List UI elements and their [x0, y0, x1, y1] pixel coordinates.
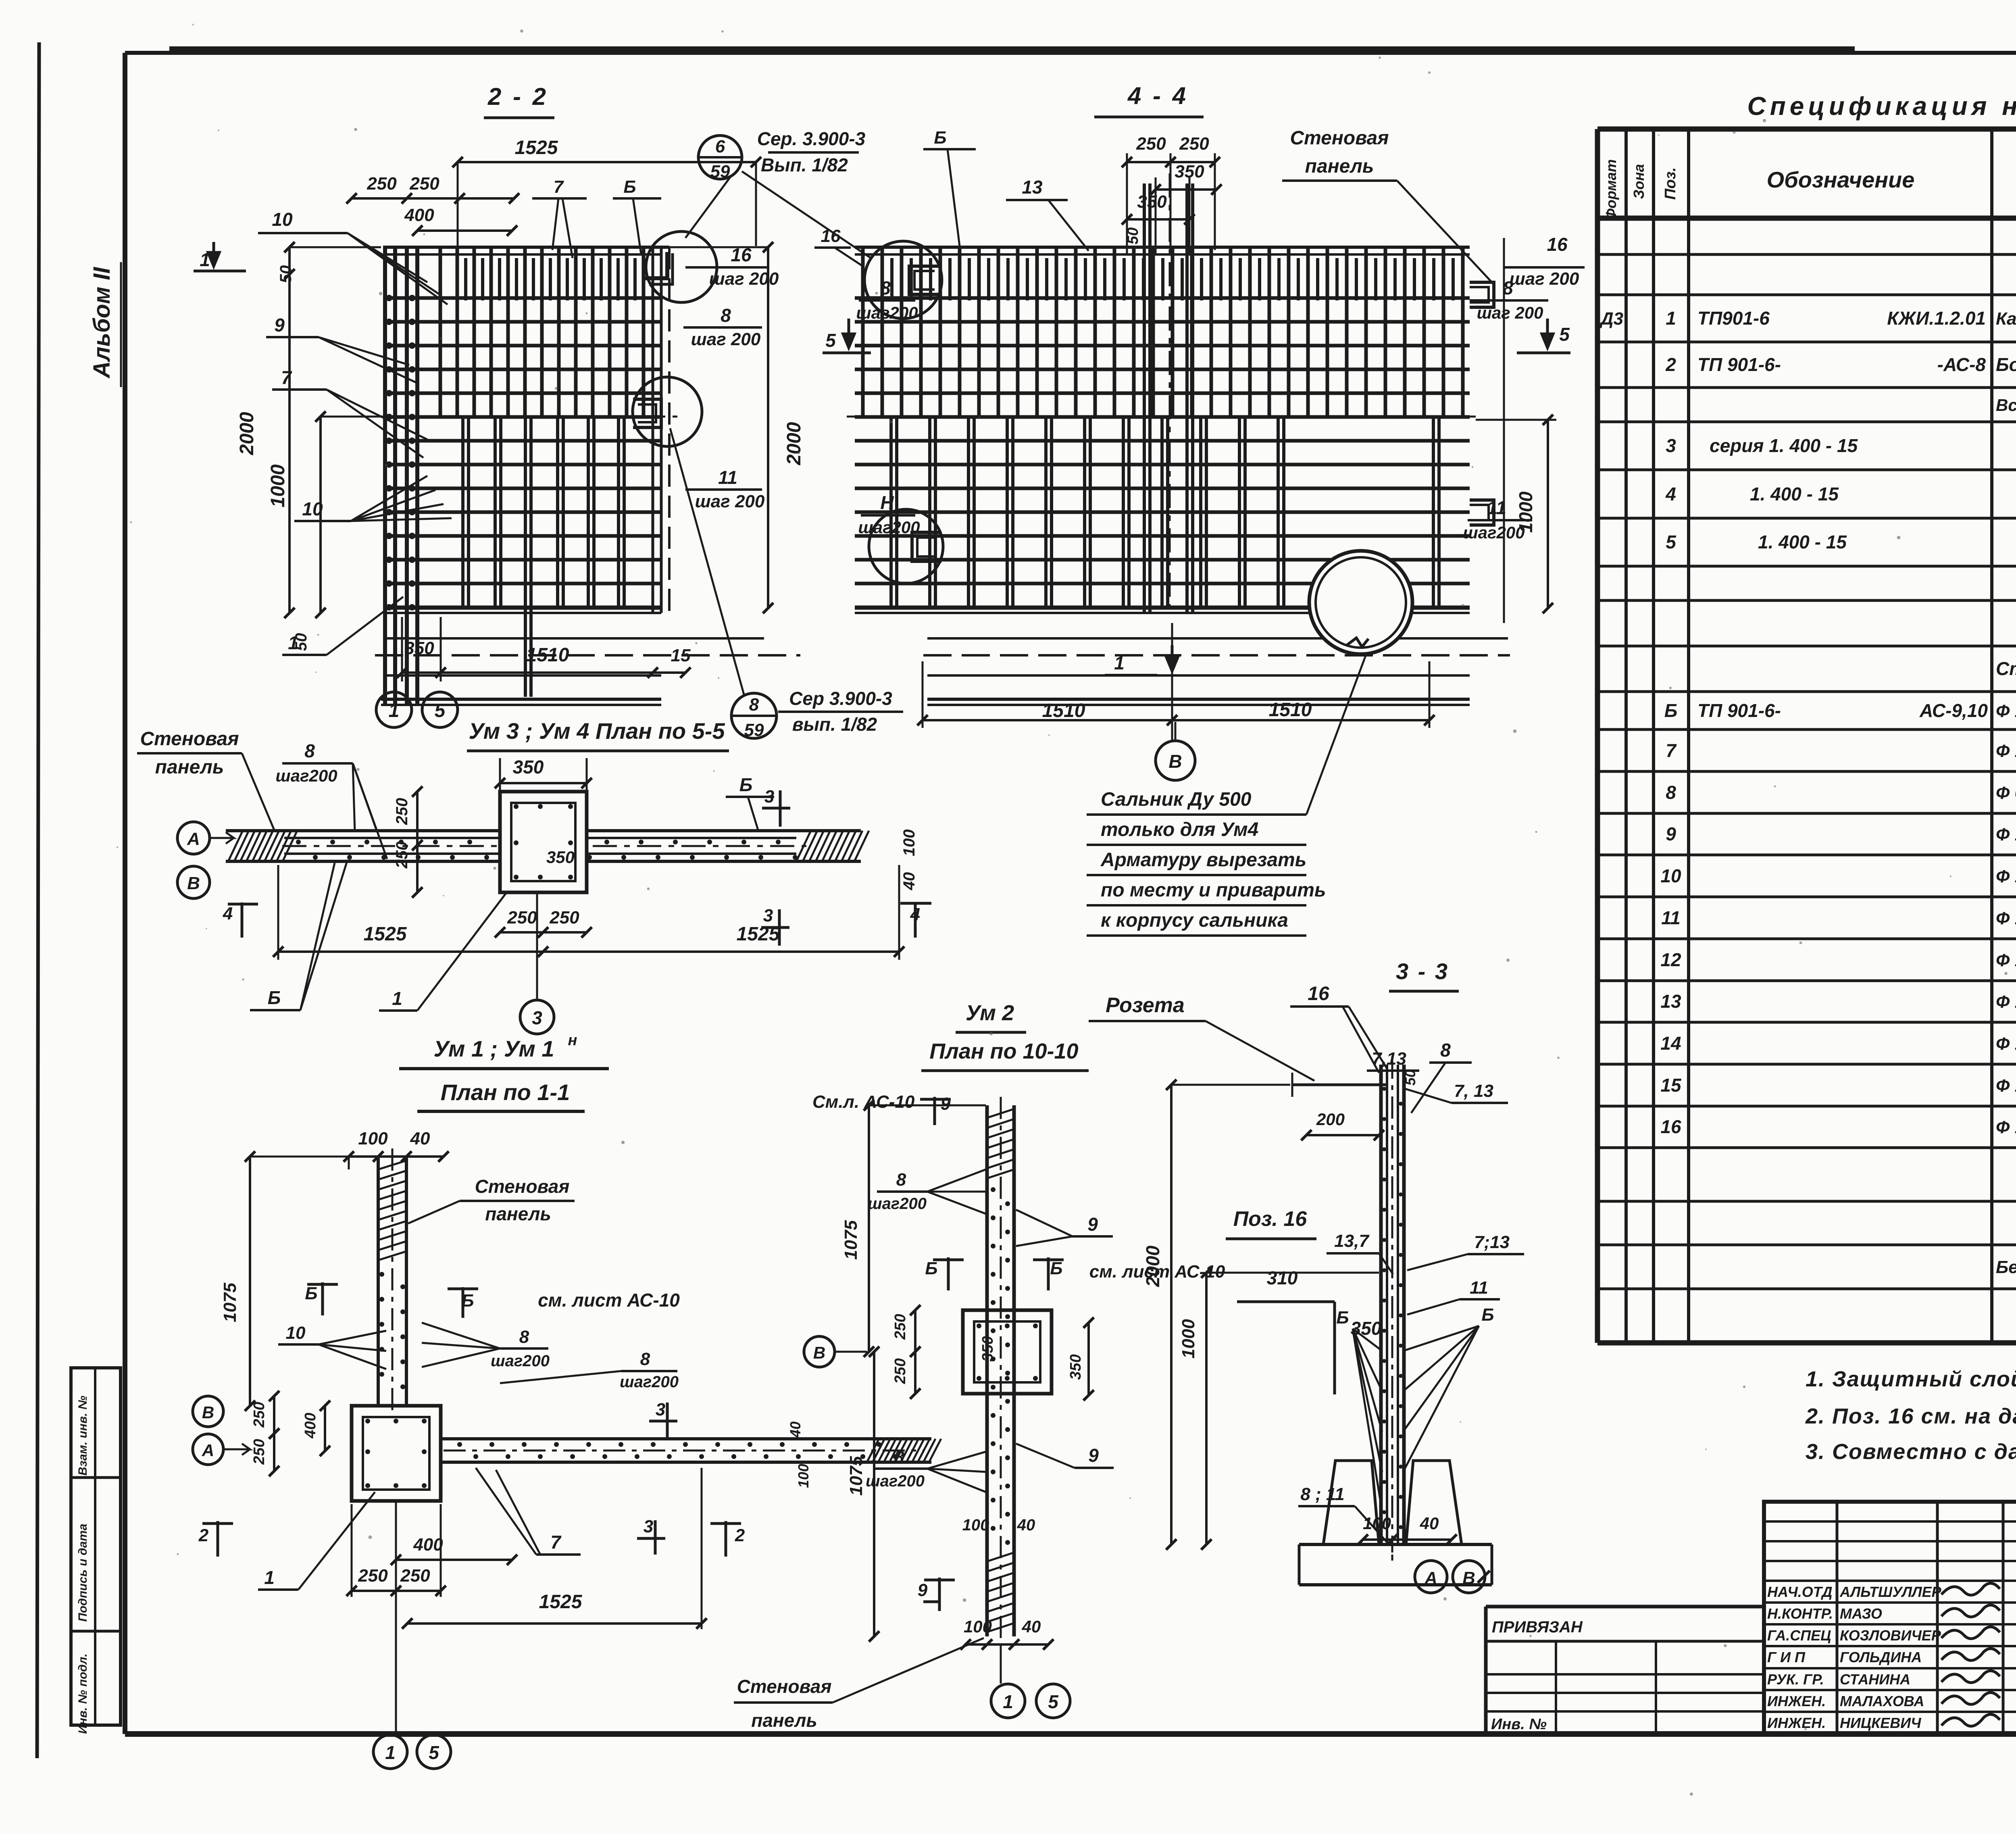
- 2-2 left dims 2000 1000: [288, 247, 291, 613]
- svg-text:Инв. №: Инв. №: [1491, 1716, 1547, 1733]
- svg-text:ИНЖЕН.: ИНЖЕН.: [1767, 1693, 1826, 1709]
- svg-text:40: 40: [787, 1421, 804, 1438]
- 2-2 corner angle detail circles: [646, 231, 717, 302]
- 3-3 top structure: [1292, 1084, 1387, 1086]
- svg-text:8: 8: [519, 1327, 529, 1347]
- plan 1-1 wall: [377, 1157, 380, 1406]
- svg-text:1000: 1000: [267, 464, 289, 507]
- svg-text:МАЛАХОВА: МАЛАХОВА: [1840, 1693, 1924, 1709]
- svg-text:ТП 901-6-: ТП 901-6-: [1697, 354, 1781, 375]
- svg-text:5: 5: [1559, 324, 1570, 345]
- svg-text:Н: Н: [880, 492, 894, 513]
- 2-2 axis line: [375, 416, 677, 418]
- svg-text:шаг200: шаг200: [856, 303, 918, 322]
- svg-text:ТП 901-6-: ТП 901-6-: [1697, 700, 1781, 721]
- svg-text:40: 40: [410, 1129, 430, 1148]
- svg-text:ИНЖЕН.: ИНЖЕН.: [1767, 1715, 1826, 1731]
- svg-text:400: 400: [404, 205, 434, 225]
- svg-text:2 - 2: 2 - 2: [487, 83, 548, 110]
- svg-text:7;13: 7;13: [1474, 1232, 1510, 1252]
- svg-text:шаг200: шаг200: [491, 1352, 550, 1370]
- 2-2 right dim 2000: [767, 247, 769, 608]
- svg-text:200: 200: [1316, 1110, 1345, 1129]
- svg-text:Г И П: Г И П: [1767, 1649, 1806, 1665]
- svg-text:9: 9: [1087, 1214, 1098, 1235]
- svg-text:шаг200: шаг200: [858, 518, 920, 537]
- plan 10-10 circled B: [804, 1336, 835, 1367]
- svg-text:Ф 10 А Ш L = 1000: Ф 10 А Ш L = 1000: [1996, 909, 2016, 928]
- svg-text:59: 59: [710, 162, 730, 181]
- svg-text:11: 11: [1661, 907, 1681, 928]
- svg-text:250: 250: [892, 1314, 909, 1340]
- spec table grid: [1595, 129, 1600, 1343]
- svg-text:40: 40: [900, 872, 918, 891]
- svg-text:Инв. № подл.: Инв. № подл.: [76, 1653, 90, 1734]
- svg-text:5: 5: [429, 1742, 439, 1763]
- 4-4 circled B: [1156, 741, 1195, 780]
- svg-text:панель: панель: [751, 1710, 817, 1731]
- svg-text:Каркас пространственный: Каркас пространственный: [1996, 309, 2016, 329]
- plan 1-1 box: [352, 1406, 441, 1501]
- svg-text:н: н: [568, 1032, 577, 1049]
- svg-text:шаг200: шаг200: [866, 1472, 925, 1490]
- svg-text:3: 3: [764, 787, 774, 807]
- svg-text:5: 5: [1048, 1691, 1059, 1712]
- svg-text:40: 40: [1420, 1514, 1439, 1533]
- svg-text:Д3: Д3: [1599, 309, 1623, 329]
- svg-text:15: 15: [671, 646, 691, 665]
- svg-text:8: 8: [640, 1349, 650, 1369]
- svg-text:Сер. 3.900-3: Сер. 3.900-3: [757, 128, 866, 149]
- svg-text:Поз. 16: Поз. 16: [1233, 1207, 1308, 1231]
- svg-text:Спецификация на монолитные: Спецификация на монолитные участки: [1747, 92, 2016, 121]
- plan 5-5 circled A B: [177, 822, 210, 854]
- title block left part (Привязан): [1484, 1607, 1488, 1734]
- 4-4 bottom band: [855, 606, 1470, 610]
- svg-text:1. Защитный слой бетона - 20: 1. Защитный слой бетона - 20 мм.: [1806, 1367, 2016, 1391]
- svg-text:панель: панель: [155, 757, 224, 778]
- svg-text:10: 10: [1660, 865, 1681, 886]
- svg-text:Ф 10 А Ш L = 1320: Ф 10 А Ш L = 1320: [1996, 867, 2016, 886]
- svg-text:План по 1-1: План по 1-1: [441, 1080, 570, 1105]
- svg-text:1525: 1525: [539, 1591, 583, 1613]
- svg-text:59: 59: [744, 720, 764, 740]
- svg-text:250: 250: [892, 1358, 909, 1384]
- 2-2 callout circle 6/59: [698, 135, 742, 179]
- svg-text:1: 1: [288, 632, 298, 653]
- svg-text:1: 1: [392, 988, 402, 1009]
- svg-text:КОЗЛОВИЧЕР: КОЗЛОВИЧЕР: [1840, 1627, 1941, 1644]
- svg-text:Ф 10 А Ш L = 1760: Ф 10 А Ш L = 1760: [1996, 741, 2016, 761]
- 4-4 salnik circle: [1309, 551, 1412, 654]
- svg-text:1510: 1510: [526, 644, 569, 666]
- svg-text:Б: Б: [268, 987, 281, 1008]
- svg-text:-АС-8: -АС-8: [1937, 354, 1986, 375]
- svg-text:Б: Б: [623, 177, 636, 197]
- svg-text:панель: панель: [485, 1203, 551, 1224]
- svg-text:1. 400 - 15: 1. 400 - 15: [1750, 484, 1839, 504]
- plan 1-1 slab: [441, 1437, 931, 1440]
- svg-text:АЛЬТШУЛЛЕР: АЛЬТШУЛЛЕР: [1839, 1584, 1942, 1600]
- svg-text:100: 100: [795, 1464, 812, 1488]
- svg-text:250: 250: [409, 174, 439, 194]
- svg-text:4 - 4: 4 - 4: [1127, 82, 1188, 109]
- svg-text:Ф 10А Ш L = 3220: Ф 10А Ш L = 3220: [1996, 992, 2016, 1012]
- svg-text:В: В: [1168, 751, 1182, 772]
- svg-text:1510: 1510: [1269, 699, 1312, 721]
- 2-2 circled 1 5: [376, 692, 412, 727]
- svg-text:5: 5: [825, 330, 836, 351]
- svg-text:Б: Б: [305, 1284, 317, 1303]
- svg-text:7: 7: [550, 1532, 562, 1553]
- svg-text:Альбом II: Альбом II: [89, 267, 115, 379]
- svg-text:3: 3: [763, 906, 773, 925]
- svg-text:8 ; 11: 8 ; 11: [1300, 1484, 1344, 1504]
- svg-text:План по 10-10: План по 10-10: [929, 1039, 1078, 1063]
- svg-text:10: 10: [302, 498, 323, 519]
- svg-text:100: 100: [964, 1617, 992, 1636]
- 3-3 circled A B: [1415, 1561, 1447, 1593]
- plan 1-1 circled B A: [193, 1396, 223, 1427]
- 3-3 wall: [1379, 1065, 1383, 1544]
- svg-text:НИЦКЕВИЧ: НИЦКЕВИЧ: [1840, 1715, 1922, 1731]
- svg-text:1. 400 - 15: 1. 400 - 15: [1758, 531, 1847, 552]
- 4-4 left corner circles: [864, 241, 942, 319]
- svg-text:8: 8: [721, 305, 731, 326]
- svg-text:250: 250: [1136, 134, 1166, 154]
- 2-2 grid mat: [383, 246, 669, 249]
- title block staff table: [1764, 1502, 2016, 1734]
- sheet left edge line: [37, 42, 39, 1758]
- svg-text:14: 14: [1660, 1033, 1681, 1054]
- svg-text:В: В: [813, 1343, 825, 1362]
- svg-text:Ум 1 ; Ум 1: Ум 1 ; Ум 1: [433, 1036, 554, 1061]
- svg-text:Б: Б: [925, 1259, 937, 1278]
- svg-text:3: 3: [532, 1007, 542, 1028]
- svg-text:2000: 2000: [1142, 1245, 1163, 1287]
- svg-text:1: 1: [264, 1567, 275, 1588]
- svg-text:5: 5: [435, 700, 446, 721]
- svg-text:1510: 1510: [1042, 700, 1085, 721]
- svg-text:А: А: [1424, 1568, 1437, 1588]
- svg-text:2000: 2000: [236, 412, 258, 455]
- svg-text:1075: 1075: [846, 1456, 866, 1496]
- svg-text:350: 350: [1137, 192, 1167, 212]
- svg-text:Болт 1.1. М30 × 1250: Болт 1.1. М30 × 1250: [1996, 354, 2016, 375]
- svg-text:Ф 10 А Ш L = 660: Ф 10 А Ш L = 660: [1996, 1117, 2016, 1137]
- svg-text:панель: панель: [1305, 156, 1374, 177]
- svg-text:250: 250: [251, 1439, 268, 1465]
- svg-text:350: 350: [546, 848, 575, 867]
- svg-text:Стеновая: Стеновая: [737, 1676, 832, 1697]
- svg-text:1: 1: [389, 700, 400, 721]
- svg-text:Ум 2: Ум 2: [966, 1001, 1014, 1025]
- svg-text:10: 10: [286, 1323, 306, 1343]
- svg-text:Формат: Формат: [1603, 159, 1619, 220]
- svg-text:СТАНИНА: СТАНИНА: [1840, 1671, 1910, 1688]
- svg-text:7,13: 7,13: [1372, 1049, 1406, 1069]
- svg-text:9: 9: [1666, 823, 1676, 844]
- svg-text:2: 2: [1665, 354, 1676, 375]
- svg-text:1075: 1075: [841, 1220, 861, 1260]
- svg-text:Обозначение: Обозначение: [1767, 167, 1915, 192]
- svg-text:250: 250: [251, 1402, 268, 1428]
- svg-text:Ф 6 А Ш L = 1980: Ф 6 А Ш L = 1980: [1996, 783, 2016, 803]
- svg-text:1: 1: [1114, 652, 1125, 673]
- svg-text:Б: Б: [739, 774, 753, 795]
- svg-text:В: В: [202, 1403, 214, 1422]
- svg-text:8: 8: [896, 1170, 906, 1190]
- svg-text:ГА.СПЕЦ: ГА.СПЕЦ: [1767, 1627, 1831, 1644]
- svg-text:1075: 1075: [220, 1283, 240, 1322]
- svg-text:Ф 10 А Ш L = 860: Ф 10 А Ш L = 860: [1996, 1076, 2016, 1096]
- 2-2 left column bars: [383, 247, 387, 704]
- svg-text:Сер 3.900-3: Сер 3.900-3: [789, 688, 892, 709]
- svg-text:13: 13: [1660, 991, 1681, 1012]
- svg-text:Бетон М 300,Мр3: Бетон М 300,Мр3: [1996, 1257, 2016, 1277]
- svg-text:16: 16: [821, 226, 841, 246]
- svg-text:шаг 200: шаг 200: [695, 492, 765, 511]
- svg-text:Стеновая: Стеновая: [140, 728, 239, 750]
- svg-text:8: 8: [1666, 782, 1676, 803]
- frame border: [125, 51, 2016, 55]
- svg-text:Взам. инв. №: Взам. инв. №: [76, 1396, 90, 1476]
- plan 1-1 left dim 1075: [249, 1157, 251, 1406]
- svg-text:вып. 1/82: вып. 1/82: [792, 714, 877, 735]
- svg-text:40: 40: [1017, 1516, 1035, 1534]
- 4-4 central wall bars: [1143, 183, 1146, 613]
- svg-text:11: 11: [1470, 1278, 1488, 1298]
- svg-text:1: 1: [1666, 308, 1676, 329]
- svg-text:2000: 2000: [783, 422, 805, 465]
- svg-text:100: 100: [1363, 1514, 1391, 1533]
- plan 5-5 center box: [500, 792, 587, 892]
- svg-text:по месту и приварить: по месту и приварить: [1101, 879, 1326, 901]
- svg-text:В: В: [187, 873, 200, 893]
- svg-text:Ф 10 А Ш L = 2220: Ф 10 А Ш L = 2220: [1996, 950, 2016, 970]
- svg-text:8: 8: [894, 1447, 904, 1467]
- svg-text:100: 100: [962, 1516, 989, 1534]
- svg-text:1: 1: [385, 1742, 396, 1763]
- svg-text:Стержень ГОСТ 5781-82: Стержень ГОСТ 5781-82: [1996, 658, 2016, 679]
- svg-text:9: 9: [274, 315, 285, 336]
- svg-text:310: 310: [1267, 1267, 1298, 1288]
- svg-text:Б: Б: [1050, 1259, 1062, 1278]
- svg-text:ГОЛЬДИНА: ГОЛЬДИНА: [1840, 1649, 1922, 1665]
- svg-text:3: 3: [1666, 435, 1676, 456]
- 4-4 right n-notches: [1470, 282, 1494, 307]
- svg-text:В: В: [1462, 1568, 1475, 1588]
- svg-text:8: 8: [304, 740, 315, 761]
- svg-text:1: 1: [1003, 1691, 1013, 1712]
- svg-text:шаг 200: шаг 200: [1477, 303, 1543, 322]
- svg-text:к корпусу сальника: к корпусу сальника: [1101, 910, 1288, 931]
- svg-text:Ф 10 А Ш L = 700: Ф 10 А Ш L = 700: [1996, 1034, 2016, 1054]
- svg-text:100: 100: [900, 829, 918, 857]
- svg-text:250: 250: [549, 908, 579, 927]
- svg-text:НАЧ.ОТД: НАЧ.ОТД: [1767, 1584, 1833, 1600]
- svg-text:250: 250: [1179, 134, 1209, 154]
- svg-text:АС-9,10: АС-9,10: [1919, 700, 1988, 721]
- svg-text:Ф 10 А Ш L = 1600: Ф 10 А Ш L = 1600: [1996, 701, 2016, 721]
- svg-text:3 - 3: 3 - 3: [1396, 959, 1449, 984]
- svg-text:Ум 3 ; Ум 4 План по 5-5: Ум 3 ; Ум 4 План по 5-5: [469, 718, 725, 744]
- svg-text:1000: 1000: [1179, 1319, 1198, 1359]
- svg-text:2: 2: [735, 1526, 745, 1545]
- svg-text:Зона: Зона: [1631, 164, 1647, 199]
- svg-text:Б: Б: [934, 128, 946, 148]
- svg-text:250: 250: [393, 842, 411, 869]
- svg-text:Б: Б: [1481, 1305, 1494, 1325]
- svg-text:7: 7: [554, 177, 564, 197]
- svg-text:А: А: [202, 1441, 214, 1460]
- svg-text:Вст3 пс2 ГОСТ 24379.1-80: Вст3 пс2 ГОСТ 24379.1-80: [1996, 396, 2016, 415]
- svg-text:350: 350: [979, 1336, 996, 1361]
- plan 1-1 circled 1 5: [373, 1735, 407, 1769]
- svg-text:7: 7: [281, 367, 292, 388]
- svg-text:1525: 1525: [364, 923, 407, 945]
- svg-text:13: 13: [1022, 177, 1043, 198]
- svg-text:40: 40: [1022, 1617, 1041, 1636]
- svg-text:8: 8: [1440, 1040, 1451, 1061]
- svg-text:Стеновая: Стеновая: [475, 1176, 570, 1197]
- svg-text:ТП901-6: ТП901-6: [1697, 308, 1770, 329]
- svg-text:Ф 10 А IV L = 1150: Ф 10 А IV L = 1150: [1996, 825, 2016, 844]
- svg-text:РУК. ГР.: РУК. ГР.: [1767, 1671, 1824, 1688]
- svg-text:8: 8: [749, 695, 759, 715]
- svg-text:5: 5: [1666, 531, 1677, 552]
- 2-2 bottom band: [383, 606, 661, 610]
- svg-text:Б: Б: [1664, 700, 1678, 721]
- svg-text:9: 9: [941, 1094, 951, 1114]
- svg-text:шаг200: шаг200: [275, 766, 337, 785]
- svg-text:6: 6: [715, 137, 725, 156]
- svg-text:4: 4: [223, 904, 233, 923]
- svg-text:250: 250: [358, 1566, 388, 1586]
- svg-text:11: 11: [718, 467, 737, 488]
- svg-text:400: 400: [413, 1535, 443, 1555]
- svg-text:КЖИ.1.2.01: КЖИ.1.2.01: [1887, 308, 1986, 329]
- svg-text:15: 15: [1660, 1075, 1682, 1096]
- 3-3 foundation: [1323, 1461, 1379, 1544]
- svg-text:250: 250: [393, 798, 411, 825]
- 2-2 callout circle 8/59: [731, 693, 777, 738]
- svg-text:16: 16: [1547, 234, 1568, 255]
- svg-text:10: 10: [272, 209, 293, 230]
- svg-text:250: 250: [507, 908, 537, 927]
- svg-text:1000: 1000: [1515, 491, 1536, 533]
- svg-text:9: 9: [918, 1580, 928, 1600]
- svg-text:100: 100: [358, 1129, 388, 1148]
- svg-text:только для Ум4: только для Ум4: [1101, 819, 1258, 840]
- svg-text:400: 400: [302, 1413, 319, 1438]
- svg-text:13,7: 13,7: [1334, 1231, 1370, 1251]
- svg-text:серия 1. 400 - 15: серия 1. 400 - 15: [1710, 435, 1858, 456]
- svg-text:4: 4: [1665, 484, 1676, 504]
- 4-4 grid mat: [855, 246, 1470, 249]
- svg-text:см. лист АС-10: см. лист АС-10: [538, 1290, 680, 1311]
- svg-text:3. Совместно с данным см.: 3. Совместно с данным см. лист АС-8 , АС…: [1806, 1440, 2016, 1464]
- svg-text:Арматуру вырезать: Арматуру вырезать: [1100, 849, 1306, 871]
- left stamp table: [71, 1368, 121, 1725]
- svg-text:8: 8: [880, 277, 891, 298]
- svg-text:шаг200: шаг200: [620, 1373, 679, 1391]
- svg-text:Б: Б: [1336, 1308, 1349, 1328]
- svg-text:7, 13: 7, 13: [1454, 1081, 1493, 1101]
- plan 10-10 wall: [985, 1105, 989, 1636]
- svg-text:12: 12: [1660, 949, 1681, 970]
- svg-text:шаг 200: шаг 200: [691, 329, 761, 349]
- svg-text:Вып. 1/82: Вып. 1/82: [761, 154, 848, 175]
- svg-text:Сальник Ду 500: Сальник Ду 500: [1101, 789, 1252, 810]
- plan 10-10 box: [963, 1310, 1052, 1394]
- svg-text:350: 350: [513, 757, 544, 777]
- svg-text:3: 3: [656, 1400, 665, 1419]
- 4-4 axis line: [847, 416, 1476, 418]
- svg-text:16: 16: [1660, 1116, 1681, 1137]
- svg-text:Подпись и дата: Подпись и дата: [76, 1523, 90, 1621]
- svg-text:ПРИВЯЗАН: ПРИВЯЗАН: [1492, 1618, 1583, 1636]
- svg-text:Розета: Розета: [1106, 994, 1185, 1017]
- svg-text:А: А: [187, 829, 200, 849]
- svg-text:Стеновая: Стеновая: [1290, 127, 1389, 149]
- svg-text:50: 50: [277, 265, 295, 283]
- svg-text:16: 16: [1308, 983, 1329, 1005]
- svg-text:Н.КОНТР.: Н.КОНТР.: [1767, 1605, 1833, 1622]
- svg-text:шаг 200: шаг 200: [1510, 269, 1579, 289]
- plan 10-10 circled 1 5: [991, 1684, 1025, 1718]
- svg-text:шаг200: шаг200: [868, 1195, 927, 1213]
- svg-text:250: 250: [367, 174, 397, 194]
- svg-text:350: 350: [404, 638, 434, 658]
- svg-text:350: 350: [1067, 1354, 1084, 1380]
- svg-text:3: 3: [644, 1517, 653, 1536]
- svg-text:7: 7: [1666, 740, 1677, 761]
- svg-text:1525: 1525: [515, 137, 558, 158]
- svg-text:Поз.: Поз.: [1662, 167, 1679, 200]
- svg-text:МАЗО: МАЗО: [1840, 1605, 1882, 1622]
- 4-4 right dim 1000: [1547, 420, 1549, 608]
- svg-text:9: 9: [1088, 1445, 1099, 1466]
- svg-text:250: 250: [400, 1566, 430, 1586]
- svg-text:2. Поз. 16 см. на данном лист: 2. Поз. 16 см. на данном листе.: [1805, 1404, 2016, 1428]
- svg-text:2: 2: [198, 1526, 209, 1545]
- plan 5-5 slab strip: [226, 829, 861, 832]
